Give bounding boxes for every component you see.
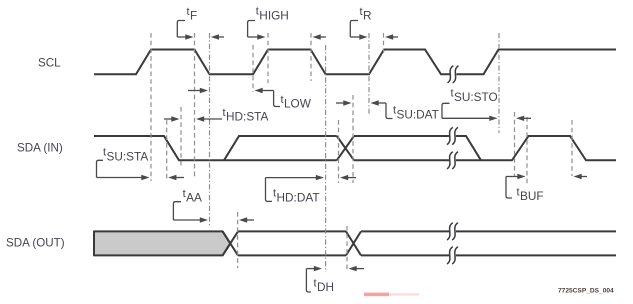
svg-text:7725CSP_DS_004: 7725CSP_DS_004 bbox=[558, 287, 614, 294]
cursor SDA (IN) X right bbox=[352, 95, 354, 183]
SDA (OUT) undefined-data gray band bbox=[94, 231, 230, 255]
tHIGH right arrow bbox=[313, 34, 327, 39]
cursor SDA (OUT) X1 right bbox=[237, 212, 239, 268]
tF left arrow bbox=[177, 34, 193, 39]
tHD:DAT right arrow bbox=[340, 175, 356, 180]
wire SDA (IN): high, START fall, low rail bbox=[94, 136, 337, 160]
svg-text:SCL: SCL bbox=[38, 56, 61, 69]
tLOW left arrow bbox=[188, 88, 208, 93]
tDH right arrow bbox=[349, 266, 365, 271]
cursor long SCL rise4 top bbox=[498, 33, 500, 133]
svg-text:SU:STO: SU:STO bbox=[454, 90, 498, 104]
wire SDA (IN): low rail right, STOP rise, next START fall bbox=[354, 136, 616, 160]
tR right arrow bbox=[385, 34, 398, 39]
svg-text:SU:STA: SU:STA bbox=[107, 149, 149, 163]
break symbols on SDA (IN) rails bbox=[449, 134, 456, 138]
svg-text:F: F bbox=[190, 9, 197, 23]
cursor SDA (IN) next START fall bbox=[571, 120, 573, 176]
tDH pointer elbow bbox=[306, 269, 311, 292]
svg-text:SDA (IN): SDA (IN) bbox=[17, 141, 63, 154]
break symbols on SDA (OUT) rails bbox=[449, 229, 456, 233]
cursor SCL fall1 top bbox=[194, 33, 196, 178]
cursor long SCL rise3 bottom bbox=[368, 33, 370, 115]
svg-text:LOW: LOW bbox=[284, 97, 312, 111]
cursor long SCL fall2 bottom bbox=[325, 45, 327, 272]
tSU:DAT right arrow bbox=[371, 100, 387, 105]
tSU:STO pointer elbow bbox=[442, 103, 450, 118]
svg-text:R: R bbox=[363, 9, 372, 23]
tHD:STA left arrow bbox=[164, 116, 180, 121]
tHD:DAT left arrow bbox=[266, 175, 325, 180]
tLOW pointer elbow bbox=[274, 91, 280, 107]
tSU:STA right arrow bbox=[168, 175, 184, 180]
tDH left arrow bbox=[306, 266, 322, 271]
tHIGH pointer elbow bbox=[248, 21, 255, 38]
tSU:STA pointer elbow bbox=[97, 160, 104, 177]
tBUF pointer elbow bbox=[506, 177, 512, 199]
cursor SDA fall start (START) bbox=[166, 120, 168, 181]
svg-text:BUF: BUF bbox=[520, 189, 544, 203]
svg-text:SDA (OUT): SDA (OUT) bbox=[6, 236, 65, 249]
tBUF left arrow bbox=[506, 174, 526, 179]
wire SDA (OUT) rails middle bbox=[238, 231, 346, 255]
tF right arrow bbox=[211, 34, 224, 39]
tAA left arrow bbox=[173, 217, 208, 222]
svg-text:AA: AA bbox=[186, 191, 202, 205]
tHD:DAT pointer elbow bbox=[266, 178, 273, 202]
tSU:DAT pointer elbow bbox=[386, 103, 393, 119]
wire SCL waveform bbox=[94, 50, 616, 75]
tBUF right arrow bbox=[574, 174, 588, 179]
cursor SCL rise1 top bbox=[150, 33, 152, 181]
tSU:STA left arrow bbox=[97, 175, 150, 180]
wire SDA (IN): high rail right with fall bbox=[354, 136, 481, 160]
cursor SCL rise3 top bbox=[383, 33, 385, 56]
wire SDA (OUT) rails right bbox=[361, 231, 616, 255]
break symbol on SCL low bbox=[450, 72, 457, 76]
tLOW right arrow bbox=[255, 88, 274, 93]
node SDA (OUT) crossover X2 bbox=[346, 231, 361, 255]
cursor SCL rise2 bottom bbox=[252, 45, 254, 92]
tSU:DAT left arrow bbox=[336, 100, 352, 105]
tHD:STA right arrow bbox=[196, 116, 222, 121]
cursor SDA (OUT) X2 left bbox=[346, 226, 348, 272]
tSU:STO right arrow bbox=[516, 116, 531, 121]
tHIGH left arrow bbox=[248, 34, 266, 39]
cursor SDA (IN) X left bbox=[338, 120, 340, 183]
svg-text:HD:DAT: HD:DAT bbox=[277, 190, 320, 204]
svg-text:DH: DH bbox=[317, 280, 334, 294]
svg-text:HIGH: HIGH bbox=[259, 8, 289, 22]
svg-text:HD:STA: HD:STA bbox=[226, 110, 269, 124]
pink highlight artifact bbox=[364, 293, 389, 297]
cursor SCL fall2 top bbox=[310, 33, 312, 81]
node SDA (IN) data crossover X bbox=[337, 136, 354, 160]
tR pointer elbow bbox=[350, 21, 358, 38]
node SDA (OUT) crossover X1 bbox=[223, 231, 238, 255]
cursor long SCL fall1 bottom bbox=[209, 33, 211, 227]
tAA pointer elbow bbox=[173, 202, 181, 220]
cursor SDA fall end bbox=[180, 107, 182, 166]
wire SDA (IN): rise branch and high rail bbox=[224, 136, 337, 160]
cursor SDA (IN) STOP rise top bbox=[526, 117, 528, 186]
tSU:STO left arrow bbox=[442, 116, 498, 121]
cursor SCL rise2 top bbox=[267, 33, 269, 83]
cursor SDA (IN) STOP rise start bbox=[514, 112, 516, 176]
tF pointer elbow bbox=[177, 21, 185, 38]
svg-text:SU:DAT: SU:DAT bbox=[397, 107, 439, 121]
tR left arrow bbox=[350, 34, 367, 39]
tAA right arrow bbox=[239, 217, 254, 222]
